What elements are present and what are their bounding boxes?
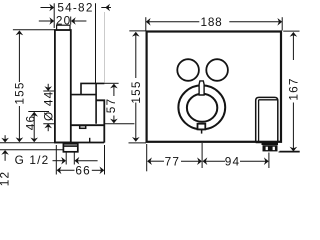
svg-text:188: 188	[200, 15, 222, 29]
side view: G1/2 stub	[63, 144, 77, 152]
svg-text:155: 155	[13, 81, 27, 104]
arrowhead G12 L	[61, 157, 66, 165]
dim 155 left line	[18, 32, 20, 82]
dim 167 line	[292, 34, 294, 60]
extension line module rear top	[95, 3, 97, 83]
front view: holder bottom	[256, 141, 278, 143]
side view: bottom edge	[55, 142, 104, 144]
svg-text:167: 167	[286, 77, 300, 100]
extension line bottom left	[0, 142, 55, 144]
front view: plate	[147, 32, 281, 142]
front view: holder inner lines	[259, 100, 278, 142]
arrowhead 188 R	[277, 18, 282, 26]
svg-text:Ø 44: Ø 44	[41, 91, 55, 121]
arrowhead 77 R	[197, 157, 202, 165]
dim G12 arrows lines	[53, 160, 64, 162]
arrowhead 188 L	[146, 18, 151, 26]
dim 46 line	[33, 113, 35, 141]
dim 57 line	[113, 86, 115, 96]
arrowhead 155M top	[132, 32, 140, 37]
dim 188 line	[148, 21, 280, 23]
side view: top cap box	[57, 25, 70, 30]
arrowhead G12 R	[75, 157, 80, 165]
extension line G12 right	[73, 153, 75, 165]
side view: knob bottom edge	[71, 124, 105, 126]
arrowhead 155M bot	[132, 137, 140, 142]
arrowhead 12 top	[1, 138, 9, 143]
extension line flange top right	[104, 82, 118, 84]
side view: stub inner line	[63, 145, 77, 147]
arrowhead 46 bot	[30, 138, 38, 143]
svg-text:20: 20	[56, 13, 72, 27]
extension line 66 right	[104, 145, 106, 175]
extension 77-94 mid	[201, 143, 203, 168]
svg-text:12: 12	[0, 171, 12, 187]
arrowhead 20 L	[49, 17, 54, 25]
svg-text:G 1/2: G 1/2	[15, 153, 50, 167]
side view: holder top step	[96, 100, 104, 142]
dim dia44 line	[47, 84, 49, 89]
svg-text:94: 94	[225, 154, 241, 168]
front view: knob top marker	[199, 81, 204, 95]
front view: holder outline	[256, 97, 278, 142]
extension 77 left	[146, 144, 148, 171]
front view: button 1	[177, 59, 199, 81]
side view: knob flange box	[81, 83, 104, 94]
front view: knob bottom tab	[198, 124, 206, 130]
svg-text:66: 66	[75, 163, 91, 177]
front view: knob inner ring	[187, 94, 217, 122]
svg-text:46: 46	[24, 115, 38, 131]
arrowhead 12 bot	[1, 150, 9, 155]
projection line light	[104, 12, 106, 83]
dim 20	[39, 20, 52, 22]
extension 167 top	[283, 30, 299, 32]
extension 188 left	[145, 17, 147, 31]
svg-text:155: 155	[129, 80, 143, 103]
arrowhead 66 L	[57, 167, 62, 175]
side view: nipple line	[89, 138, 91, 143]
side view: module top edge	[71, 84, 96, 124]
front view: knob bottom tick	[201, 129, 203, 133]
arrowhead 155L bot	[16, 137, 24, 142]
arrowhead 57 top	[110, 84, 118, 89]
arrowhead dia44 bot	[44, 124, 52, 129]
extension 155 mid top	[129, 30, 146, 32]
extension line 20 right	[70, 17, 72, 25]
extension line knob bottom	[43, 123, 134, 125]
svg-text:57: 57	[104, 98, 118, 114]
arrowhead 155L top	[16, 30, 24, 35]
dim 66 line	[58, 169, 75, 171]
side view: foot notch	[80, 126, 86, 129]
dim 155 mid line	[135, 34, 137, 78]
arrowhead 77 L	[147, 157, 152, 165]
svg-text:77: 77	[165, 154, 181, 168]
dim 94 line	[240, 160, 267, 162]
extension 188 right	[281, 17, 283, 30]
extension line wall top	[53, 3, 55, 28]
arrowhead 94 R	[264, 157, 269, 165]
arrowhead 20 R	[71, 17, 76, 25]
extension line G12 left	[65, 153, 67, 165]
dim 77 line	[149, 160, 164, 162]
dim 12 line	[4, 135, 6, 140]
arrowhead dia44 top	[44, 86, 52, 91]
extension line 66 left	[55, 145, 57, 175]
front view: nut flange	[262, 142, 279, 145]
extension 155 mid bottom	[129, 142, 147, 144]
arrowhead 54-82 R	[105, 4, 110, 12]
front view: knob outer ring	[178, 85, 225, 129]
extension line 46 top	[28, 111, 49, 113]
arrowhead 167 top	[290, 32, 298, 37]
arrowhead 57 bot	[110, 119, 118, 124]
side view: valve body	[55, 30, 71, 143]
front view: button 2	[206, 59, 228, 81]
extension line stub bottom	[0, 149, 63, 151]
extension line top left	[13, 29, 55, 31]
arrowhead 167 bot	[290, 147, 298, 152]
arrowhead 94 L	[203, 157, 208, 165]
arrowhead 46 top	[30, 112, 38, 117]
extension line knob top	[43, 90, 55, 92]
extension 94 right	[268, 153, 270, 169]
arrowhead 66 R	[100, 167, 105, 175]
dim 54-82	[41, 7, 53, 9]
arrowhead 54-82 L	[49, 4, 54, 12]
front view: nut body	[263, 145, 278, 151]
extension 167 bottom	[279, 150, 300, 153]
